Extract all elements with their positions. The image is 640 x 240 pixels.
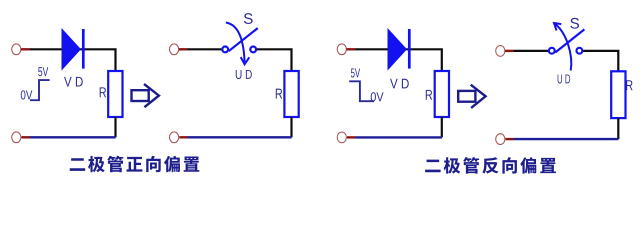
- waveform: 0V-to-5V step (circuit 1 input): [30, 80, 50, 100]
- resistor R1 (circuit 1) label R: [100, 87, 106, 97]
- label R (circuit 4): [626, 80, 632, 90]
- wire stub J3: [179, 48, 188, 50]
- waveform: 5V-to-0V step (circuit 3 input): [349, 81, 374, 101]
- wire bottom (circuit 1): [30, 136, 116, 138]
- switch S contact left (circuit 2): [222, 47, 228, 53]
- resistor R1 (circuit 1): [108, 71, 122, 117]
- terminal J3 top (circuit 2): [170, 44, 179, 55]
- label 5V (circuit 3): [351, 68, 360, 77]
- wire stub J6: [347, 136, 356, 138]
- switch S blade (circuit 4): [555, 29, 584, 52]
- switch S blade (circuit 2): [229, 28, 258, 51]
- wire stub J5: [346, 48, 355, 50]
- caption: diode forward biased: [70, 156, 200, 173]
- label VD2: [390, 79, 409, 89]
- caption: diode reverse biased: [425, 157, 556, 174]
- wire bottom (circuit 2): [188, 136, 292, 138]
- wire: J7 to switch S left contact (circuit 4): [514, 50, 549, 52]
- wire stub J8: [506, 138, 514, 140]
- terminal J8 bottom (circuit 4): [496, 134, 505, 145]
- label VD1: [64, 77, 83, 87]
- wire: R1 bottom down (circuit 1): [114, 117, 116, 137]
- wire: R2 bottom down (circuit 2): [290, 117, 292, 137]
- wire: J3 to switch S left contact: [188, 48, 222, 50]
- equivalence arrow 2 (circuit 3 to circuit 4): [458, 85, 485, 108]
- resistor R2 (circuit 2) label R: [276, 89, 282, 99]
- terminal J6 bottom (circuit 3): [337, 132, 346, 143]
- label UD (circuit 2): [236, 70, 252, 79]
- resistor R2 (circuit 2): [284, 71, 298, 117]
- resistor R3 (circuit 3): [435, 71, 449, 117]
- terminal J7 top (circuit 4): [496, 46, 505, 57]
- wire top (circuit 3): J5 to resistor R top: [356, 49, 442, 71]
- wire bottom (circuit 3): [356, 136, 442, 138]
- label 0V (circuit 1): [21, 90, 33, 99]
- resistor R4 (circuit 4): [611, 71, 625, 118]
- terminal J2 bottom (circuit 1): [12, 132, 21, 143]
- terminal J5 top (circuit 3): [337, 44, 346, 55]
- terminal J4 bottom (circuit 2): [170, 132, 179, 143]
- wire stub J1: [21, 48, 30, 50]
- wire: switch S to resistor R top (circuit 4): [583, 51, 618, 71]
- switch closing arrow (circuit 2): [226, 23, 249, 65]
- wire bottom (circuit 4): [514, 138, 619, 140]
- wire: R4 bottom down (circuit 4): [617, 118, 619, 139]
- switch S contact left (circuit 4): [549, 48, 555, 54]
- wire: switch S to resistor R top (circuit 2): [257, 49, 292, 71]
- equivalence arrow 1 (circuit 1 to circuit 2): [132, 84, 159, 107]
- switch S contact right (circuit 4): [577, 48, 583, 54]
- diode VD2 (circuit 3): [388, 28, 408, 71]
- wire stub J7: [505, 50, 514, 52]
- switch opening arrow (circuit 4): [554, 23, 571, 71]
- wire stub J2: [22, 136, 31, 138]
- label S (circuit 2): [244, 13, 253, 24]
- label UD (circuit 4): [558, 74, 571, 83]
- terminal J1 top (circuit 1): [12, 44, 21, 55]
- wire stub J4: [179, 136, 187, 138]
- diode VD1 (circuit 1): [62, 28, 82, 71]
- resistor R3 (circuit 3) label R: [426, 90, 432, 100]
- label 5V (circuit 1): [38, 67, 48, 76]
- label 0V (circuit 3): [371, 92, 384, 101]
- wire: R3 bottom down (circuit 3): [441, 117, 443, 137]
- switch S contact right (circuit 2): [250, 47, 256, 53]
- label S (circuit 4): [570, 18, 579, 29]
- wire top (circuit 1): J1 to resistor R top: [30, 49, 116, 71]
